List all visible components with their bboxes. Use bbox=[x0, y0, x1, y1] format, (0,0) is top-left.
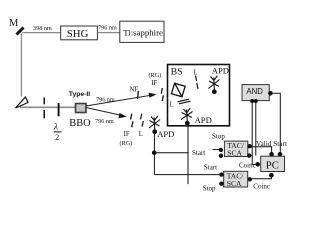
svg-text:BBO: BBO bbox=[69, 118, 91, 129]
wire 398nm beam M to SHG bbox=[23, 32, 61, 34]
beamsplitter cube bbox=[171, 83, 185, 97]
TAC2 input node start bbox=[219, 172, 223, 176]
TAC1 input node stop bbox=[219, 154, 223, 158]
junction node bbox=[152, 150, 157, 155]
svg-text:APD: APD bbox=[212, 66, 229, 76]
TAC1 input node start bbox=[219, 148, 223, 152]
svg-text:Coinc: Coinc bbox=[253, 183, 270, 191]
svg-text:398 nm: 398 nm bbox=[33, 25, 52, 32]
wire pump beam prism to BBO bbox=[20, 106, 76, 108]
BBO crystal bbox=[76, 104, 87, 113]
beam lower 796nm from BBO bbox=[86, 108, 123, 116]
AND input node B bbox=[254, 99, 258, 103]
TAC1 output node valid bbox=[247, 144, 251, 148]
wire 796nm beam SHG to Ti:sapphire bbox=[97, 32, 119, 34]
svg-text:IF: IF bbox=[151, 80, 157, 87]
Ti:sapphire box bbox=[120, 21, 164, 42]
svg-text:Ti:sapphire: Ti:sapphire bbox=[123, 27, 163, 37]
svg-text:Start: Start bbox=[204, 163, 217, 171]
svg-text:796 nm: 796 nm bbox=[98, 25, 117, 32]
PC input node left bbox=[255, 162, 260, 167]
wire PC bottom to TAC2 output bbox=[250, 175, 272, 179]
svg-text:L: L bbox=[139, 131, 143, 138]
beam upper 796nm from BBO bbox=[86, 95, 153, 106]
interference filter lower double tick bbox=[131, 114, 132, 120]
svg-text:SCA: SCA bbox=[227, 148, 242, 157]
prism bbox=[16, 97, 29, 108]
TAC2 box bbox=[224, 171, 248, 187]
TAC1 output node coinc bbox=[247, 153, 251, 157]
wire TAC1 coinc stub bbox=[249, 155, 252, 157]
SHG box bbox=[61, 26, 98, 40]
svg-text:Coinc: Coinc bbox=[239, 162, 256, 170]
PC node bottom bbox=[269, 173, 274, 178]
wire V1 from BS APD down bbox=[187, 126, 189, 185]
svg-text:APD: APD bbox=[195, 115, 212, 125]
svg-text:Type-II: Type-II bbox=[69, 91, 91, 98]
svg-text:M: M bbox=[9, 18, 19, 29]
APD detector glyph trigger bbox=[149, 116, 160, 130]
svg-text:PC: PC bbox=[266, 160, 279, 171]
TAC2 input node stop bbox=[219, 182, 223, 186]
svg-text:λ: λ bbox=[53, 122, 58, 132]
wire AND input B down bbox=[255, 101, 257, 156]
lens lower double stroke bbox=[141, 114, 142, 120]
svg-text:Stop: Stop bbox=[212, 132, 225, 140]
svg-text:L: L bbox=[193, 70, 197, 77]
svg-text:Start: Start bbox=[192, 149, 205, 157]
PC box bbox=[261, 156, 285, 171]
wire H2 to TAC2 start bbox=[154, 174, 221, 176]
APD detector glyph bottom bbox=[181, 108, 193, 121]
stub start TAC1 bbox=[213, 149, 220, 151]
BS box bbox=[168, 65, 230, 126]
interference filter upper double tick bbox=[161, 88, 162, 94]
svg-text:SHG: SHG bbox=[67, 28, 89, 40]
svg-text:Valid Start: Valid Start bbox=[256, 139, 287, 148]
svg-text:(RG): (RG) bbox=[149, 72, 162, 79]
svg-text:AND: AND bbox=[246, 87, 263, 96]
svg-text:796 nm: 796 nm bbox=[96, 97, 115, 104]
svg-text:NF: NF bbox=[130, 87, 139, 94]
wire H1 to TAC1 start bbox=[154, 152, 189, 154]
svg-text:(RG): (RG) bbox=[120, 140, 133, 147]
svg-text:IF: IF bbox=[124, 131, 130, 138]
lens top double stroke bbox=[195, 76, 196, 82]
svg-text:BS: BS bbox=[171, 66, 183, 77]
wire drop to H2 bbox=[153, 153, 155, 175]
AND output node right bbox=[268, 91, 273, 96]
PC input node top left bbox=[269, 152, 274, 157]
lens mid double stroke bbox=[178, 99, 190, 102]
wire AND output to PC bbox=[270, 93, 280, 153]
svg-text:L: L bbox=[170, 102, 174, 109]
neutral filter tick on upper beam bbox=[137, 91, 140, 99]
TAC1 box bbox=[224, 141, 247, 156]
svg-text:APD: APD bbox=[157, 129, 174, 139]
mirror M bbox=[17, 28, 24, 35]
APD detector glyph top right bbox=[209, 76, 220, 90]
TAC2 output node bbox=[248, 177, 252, 181]
half-wave plate tick 2 bbox=[58, 103, 60, 116]
svg-text:2: 2 bbox=[55, 133, 59, 142]
svg-text:796 nm: 796 nm bbox=[95, 118, 114, 125]
AND input node A bbox=[250, 99, 254, 103]
polarizer tick 1 bbox=[43, 98, 45, 105]
wire TAC1 valid start to PC bbox=[250, 147, 272, 154]
svg-text:Stop: Stop bbox=[203, 184, 216, 192]
PC input node top right bbox=[278, 152, 283, 157]
AND box bbox=[242, 85, 269, 101]
wire trigger APD down bbox=[153, 133, 155, 153]
wire vertical pump beam from M down to prism bbox=[20, 34, 22, 97]
svg-text:SCA: SCA bbox=[227, 179, 242, 188]
wire AND input A down bbox=[252, 101, 256, 164]
